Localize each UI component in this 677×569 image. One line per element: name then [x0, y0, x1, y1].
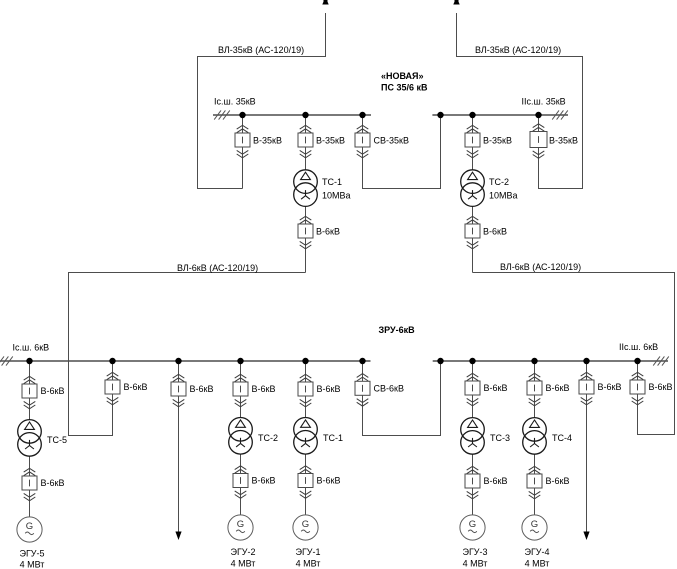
node 6kV bus B1 — [26, 358, 32, 364]
breaker B-6kV feeder 1 — [171, 374, 186, 407]
svg-text:В-35кВ: В-35кВ — [253, 136, 282, 146]
node 35kV bus A5 — [469, 112, 475, 118]
svg-text:G: G — [302, 519, 309, 530]
svg-text:В-6кВ: В-6кВ — [546, 476, 570, 486]
svg-text:Iс.ш. 6кВ: Iс.ш. 6кВ — [13, 343, 50, 353]
wire bay x=240.5 bus to unit transformer — [240, 361, 242, 418]
svg-text:10МВа: 10МВа — [322, 191, 351, 201]
wire bay TC-2 35kV — [472, 115, 474, 170]
svg-text:ВЛ-6кВ (АС-120/19): ВЛ-6кВ (АС-120/19) — [500, 262, 581, 272]
breaker B-6kV generator EGU-4 — [527, 466, 542, 499]
svg-text:В-6кВ: В-6кВ — [252, 476, 276, 486]
svg-text:ТС-1: ТС-1 — [323, 433, 343, 443]
arrowhead line 2 up — [453, 0, 459, 5]
generator EGU-4 — [522, 515, 547, 540]
generator EGU-5 — [17, 517, 42, 542]
breaker B-6kV SV-6kV bus coupler — [355, 374, 370, 407]
node 35kV bus A3 — [359, 112, 365, 118]
bus I 6kV end hatch — [0, 356, 13, 365]
wire bay x=240.5 transformer to generator — [240, 454, 242, 515]
svg-text:G: G — [26, 521, 33, 532]
wire bay x=29.5 transformer to generator — [29, 456, 31, 517]
svg-text:В-6кВ: В-6кВ — [546, 383, 570, 393]
wire bay x=534.5 bus to unit transformer — [534, 361, 536, 418]
svg-text:В-6кВ: В-6кВ — [317, 476, 341, 486]
svg-text:4 МВт: 4 МВт — [20, 559, 45, 569]
wire bay x=29.5 bus to unit transformer — [29, 361, 31, 420]
wire bus coupler 35kV — [363, 115, 441, 189]
node 35kV bus A1 — [239, 112, 245, 118]
breaker B-6kV generator EGU-2 — [233, 466, 248, 499]
breaker B-35kV line 1 — [235, 125, 250, 158]
bus II 6kV — [433, 360, 668, 362]
transformer TC-2 35/6kV — [461, 170, 485, 207]
svg-text:В-6кВ: В-6кВ — [598, 382, 622, 392]
node 6kV bus B10 — [583, 358, 589, 364]
svg-text:ПС 35/6 кВ: ПС 35/6 кВ — [381, 83, 428, 93]
wire incoming overhead line 2 (ВЛ-35кВ) — [457, 13, 583, 189]
node 6kV bus B2 — [109, 358, 115, 364]
svg-text:ЭГУ-2: ЭГУ-2 — [230, 547, 255, 557]
svg-text:В-6кВ: В-6кВ — [649, 382, 673, 392]
svg-text:ТС-2: ТС-2 — [489, 177, 509, 187]
svg-text:4 МВт: 4 МВт — [231, 558, 256, 568]
svg-text:G: G — [531, 519, 538, 530]
node 35kV bus A2 — [302, 112, 308, 118]
node 6kV bus B4 — [237, 358, 243, 364]
arrowhead feeder 2 down — [583, 532, 589, 541]
node 6kV bus B8 — [469, 358, 475, 364]
transformer TC-3 6kV — [461, 418, 485, 455]
bus I 6kV — [0, 360, 371, 362]
svg-text:ТС-3: ТС-3 — [490, 433, 510, 443]
node 6kV bus B5 — [302, 358, 308, 364]
node 6kV bus B3 — [175, 358, 181, 364]
node 6kV bus B6 — [359, 358, 365, 364]
svg-text:10МВа: 10МВа — [489, 191, 518, 201]
wire bay TC-1 35kV — [305, 115, 307, 170]
wire bay x=534.5 transformer to generator — [534, 454, 536, 515]
wire bus coupler 6kV — [363, 361, 441, 436]
breaker B-35kV TC-1 — [298, 125, 313, 158]
breaker B-35kV line 2 — [530, 124, 547, 159]
svg-text:В-6кВ: В-6кВ — [252, 384, 276, 394]
transformer TC-2 6kV — [229, 418, 253, 455]
breaker SV-35kV bus coupler — [355, 125, 370, 158]
wire incoming overhead line 1 (ВЛ-35кВ) — [198, 13, 326, 189]
generator EGU-1 — [293, 515, 318, 540]
breaker B-6kV generator EGU-1 — [298, 466, 313, 499]
node 6kV bus B9 — [531, 358, 537, 364]
transformer TC-4 6kV — [523, 418, 547, 455]
wire bay x=472.5 transformer to generator — [472, 454, 474, 515]
wire TC-1 low side down to VL-6kV — [305, 206, 307, 273]
breaker B-6kV TS-5 bay — [22, 376, 37, 409]
svg-text:В-35кВ: В-35кВ — [549, 136, 578, 146]
svg-text:ВЛ-35кВ (АС-120/19): ВЛ-35кВ (АС-120/19) — [475, 45, 561, 55]
svg-text:4 МВт: 4 МВт — [296, 558, 321, 568]
wire bay B-35kV line1 — [242, 115, 244, 189]
wire bay B-35kV line2 — [538, 115, 540, 158]
breaker B-6kV TS-4 bay — [527, 373, 542, 406]
breaker B-6kV feeder 2 — [579, 372, 594, 405]
node 6kV bus B11 — [634, 358, 640, 364]
svg-text:В-6кВ: В-6кВ — [484, 383, 508, 393]
svg-text:В-6кВ: В-6кВ — [484, 476, 508, 486]
svg-text:IIс.ш. 6кВ: IIс.ш. 6кВ — [619, 342, 658, 352]
wire feeder 2 (bus II) — [586, 361, 588, 534]
svg-text:В-6кВ: В-6кВ — [316, 227, 340, 237]
wire bay x=472.5 bus to unit transformer — [472, 361, 474, 418]
node 6kV bus B7 — [437, 358, 443, 364]
transformer TC-1 6kV — [294, 418, 318, 455]
bus I 35kV end hatch — [214, 110, 230, 119]
generator EGU-2 — [228, 515, 253, 540]
wire cable line VL-6kV 2 to bus II — [473, 273, 675, 435]
wire cable line VL-6kV 1 to bus I — [69, 273, 306, 436]
svg-text:ТС-2: ТС-2 — [258, 433, 278, 443]
breaker B-6kV line 1 bay — [105, 372, 120, 405]
svg-text:В-35кВ: В-35кВ — [316, 136, 345, 146]
breaker B-6kV generator EGU-5 — [22, 468, 37, 501]
breaker B-6kV TS-1 bay — [298, 374, 313, 407]
svg-text:ВЛ-35кВ (АС-120/19): ВЛ-35кВ (АС-120/19) — [218, 45, 304, 55]
svg-text:ЭГУ-3: ЭГУ-3 — [462, 547, 487, 557]
wire TC-2 low side down to VL-6kV — [472, 206, 474, 273]
svg-text:ТС-4: ТС-4 — [552, 433, 572, 443]
wire bay x=305.5 transformer to generator — [305, 454, 307, 515]
svg-text:В-6кВ: В-6кВ — [41, 386, 65, 396]
svg-text:ЭГУ-5: ЭГУ-5 — [19, 549, 44, 559]
breaker B-6kV TC-1 low side — [298, 216, 313, 249]
transformer TC-5 6kV — [18, 420, 42, 457]
arrowhead feeder 1 down — [175, 532, 181, 541]
svg-text:Iс.ш. 35кВ: Iс.ш. 35кВ — [214, 97, 256, 107]
svg-text:ТС-1: ТС-1 — [322, 177, 342, 187]
breaker B-6kV TS-3 bay — [465, 373, 480, 406]
svg-text:ЭГУ-1: ЭГУ-1 — [295, 547, 320, 557]
breaker B-35kV TC-2 — [465, 125, 480, 158]
svg-text:В-6кВ: В-6кВ — [317, 384, 341, 394]
svg-text:G: G — [469, 519, 476, 530]
svg-text:ТС-5: ТС-5 — [47, 435, 67, 445]
svg-text:4 МВт: 4 МВт — [463, 558, 488, 568]
node 35kV bus A6 — [535, 112, 541, 118]
bus II 35kV end hatch — [552, 110, 568, 119]
wire feeder 1 (bus I) — [178, 361, 180, 534]
breaker B-6kV TS-2 bay — [233, 374, 248, 407]
node 35kV bus A4 — [437, 112, 443, 118]
svg-text:СВ-6кВ: СВ-6кВ — [374, 383, 404, 393]
svg-text:В-6кВ: В-6кВ — [124, 382, 148, 392]
bus II 6kV end hatch — [653, 356, 669, 365]
transformer TC-1 35/6kV — [294, 170, 318, 207]
bus I 35kV — [213, 114, 371, 116]
svg-text:В-6кВ: В-6кВ — [483, 227, 507, 237]
svg-text:ЗРУ-6кВ: ЗРУ-6кВ — [379, 325, 416, 335]
svg-text:В-35кВ: В-35кВ — [483, 136, 512, 146]
breaker B-6kV TC-2 low side — [465, 216, 480, 249]
svg-text:В-6кВ: В-6кВ — [41, 478, 65, 488]
breaker B-6kV generator EGU-3 — [465, 466, 480, 499]
svg-text:СВ-35кВ: СВ-35кВ — [374, 136, 409, 146]
svg-text:ВЛ-6кВ (АС-120/19): ВЛ-6кВ (АС-120/19) — [177, 263, 258, 273]
generator EGU-3 — [460, 515, 485, 540]
breaker B-6kV line 2 bay — [630, 372, 645, 405]
wire bay x=305.5 bus to unit transformer — [305, 361, 307, 418]
svg-text:ЭГУ-4: ЭГУ-4 — [524, 547, 549, 557]
svg-text:G: G — [237, 519, 244, 530]
svg-text:4 МВт: 4 МВт — [525, 558, 550, 568]
arrowhead line 1 up — [322, 0, 328, 5]
bus II 35kV — [432, 114, 568, 116]
svg-text:«НОВАЯ»: «НОВАЯ» — [381, 71, 424, 81]
svg-text:IIс.ш. 35кВ: IIс.ш. 35кВ — [522, 97, 566, 107]
svg-text:В-6кВ: В-6кВ — [190, 384, 214, 394]
